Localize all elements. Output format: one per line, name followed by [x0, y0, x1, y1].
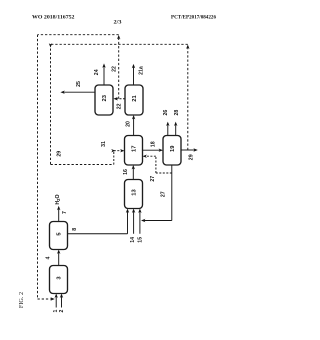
- svg-text:25: 25: [76, 81, 82, 87]
- arrowhead stream 14 into box 13: [132, 209, 135, 213]
- svg-text:2/3: 2/3: [114, 19, 122, 25]
- arrowhead stream 4 into box 5: [57, 250, 60, 254]
- arrowhead dashed 29 riser top: [186, 45, 189, 49]
- svg-text:WO 2018/116752: WO 2018/116752: [32, 14, 75, 20]
- arrowhead stream 26: [166, 122, 169, 126]
- svg-text:13: 13: [132, 189, 138, 196]
- svg-text:8: 8: [72, 228, 78, 231]
- wire: inner dashed 29 bottom horizontal: [51, 164, 114, 166]
- svg-text:22: 22: [112, 66, 118, 72]
- wire: stream 29: [181, 149, 196, 151]
- arrowhead dashed 27 into box 17: [143, 155, 147, 158]
- wire: inner dashed 29 right vertical riser: [187, 46, 189, 150]
- arrowhead stream 27 into stream 15: [141, 219, 145, 222]
- svg-text:17: 17: [132, 146, 138, 152]
- arrowhead stream 28: [174, 122, 177, 126]
- arrowhead stream 2 into box 3: [60, 294, 63, 298]
- arrowhead stream 29: [193, 148, 197, 151]
- arrowhead dashed 29 top-left corner turning down: [49, 43, 52, 47]
- wire: dashed 31 horizontal into box 17: [114, 150, 124, 152]
- svg-text:4: 4: [45, 256, 51, 259]
- arrowhead stream 25: [60, 91, 64, 94]
- wire: stream 27 horizontal into stream 15: [142, 220, 172, 222]
- arrowhead stream 16 into box 17: [132, 165, 135, 169]
- svg-text:18: 18: [150, 141, 156, 147]
- arrowhead dashed 31 corner: [111, 149, 115, 152]
- wire: stream 26: [167, 123, 169, 135]
- svg-text:31: 31: [101, 141, 107, 147]
- box 23: [95, 85, 113, 115]
- wire: outer dashed recycle left vertical: [37, 35, 39, 299]
- arrowhead recycle into stream 1: [50, 297, 54, 300]
- wire: outer dashed recycle bottom into stream 1: [38, 298, 53, 300]
- arrowhead stream 21a: [132, 64, 135, 68]
- svg-text:19: 19: [170, 145, 176, 152]
- wire: stream 8 horizontal: [68, 233, 128, 235]
- svg-text:22: 22: [117, 103, 123, 109]
- arrowhead stream 7 to H2O: [57, 206, 60, 210]
- arrowhead stream 20 into box 21: [132, 115, 135, 119]
- wire: stream 25: [62, 91, 95, 93]
- wire: inner dashed 29 left vertical: [50, 44, 52, 164]
- svg-text:21: 21: [132, 95, 138, 102]
- svg-text:26: 26: [163, 110, 169, 116]
- wire: stream 8 vertical into box 13: [127, 210, 129, 234]
- arrowhead stream 1 into box 3: [55, 294, 58, 298]
- wire: stream 24: [103, 65, 105, 85]
- box 5: [50, 222, 68, 250]
- wire: dashed 27 branch into box 17: [156, 172, 172, 174]
- wire: outer dashed recycle 22 top horizontal: [38, 34, 119, 36]
- svg-text:27: 27: [160, 191, 166, 197]
- wire: stream 2: [61, 295, 63, 307]
- arrowhead dashed 22 into box 23: [113, 97, 117, 100]
- wire: dashed 22 vertical riser: [118, 38, 120, 99]
- svg-text:16: 16: [123, 169, 129, 175]
- wire: stream 1: [55, 295, 57, 307]
- wire: dashed 31 vertical: [113, 151, 115, 165]
- svg-text:21a: 21a: [139, 66, 145, 75]
- svg-text:27: 27: [150, 176, 156, 182]
- svg-text:2: 2: [59, 309, 65, 312]
- wire: stream 27 from box 19 down: [171, 165, 173, 221]
- svg-text:28: 28: [174, 110, 180, 116]
- svg-text:PCT/EP2017/084226: PCT/EP2017/084226: [171, 14, 216, 20]
- wire: dashed 22 horizontal into box 23: [115, 98, 125, 100]
- arrowhead stream 8 into box 13: [126, 209, 129, 213]
- svg-text:15: 15: [137, 237, 143, 243]
- svg-text:29: 29: [189, 154, 195, 160]
- box 3: [50, 266, 68, 294]
- wire: stream 15: [139, 210, 141, 234]
- svg-text:20: 20: [125, 121, 131, 127]
- wire: stream 28: [175, 123, 177, 135]
- wire: stream 7 to H2O: [58, 208, 60, 222]
- svg-text:14: 14: [130, 237, 136, 243]
- box 13: [125, 180, 143, 209]
- wire: stream 21a: [133, 66, 135, 86]
- arrowhead dashed 31 into box 17: [120, 149, 124, 152]
- wire: stream 4: [58, 251, 60, 265]
- box 19: [163, 136, 181, 166]
- box 21: [125, 85, 143, 115]
- box 17: [125, 136, 143, 166]
- svg-text:H2O: H2O: [55, 194, 61, 204]
- arrowhead dashed 22 riser top: [117, 35, 120, 39]
- svg-text:FIG. 2: FIG. 2: [18, 292, 25, 308]
- svg-text:23: 23: [102, 94, 108, 101]
- svg-text:29: 29: [57, 151, 63, 157]
- wire: stream 16: [132, 167, 134, 180]
- wire: stream 20: [133, 117, 135, 136]
- arrowhead stream 24: [102, 63, 105, 67]
- wire: stream 14: [133, 210, 135, 234]
- svg-text:24: 24: [94, 69, 100, 75]
- arrowhead stream 15 into box 13: [138, 209, 141, 213]
- arrowhead stream 18 into box 19: [159, 149, 163, 152]
- wire: stream 18: [143, 149, 162, 151]
- wire: inner dashed 29 top horizontal: [51, 43, 188, 45]
- svg-text:7: 7: [62, 211, 68, 214]
